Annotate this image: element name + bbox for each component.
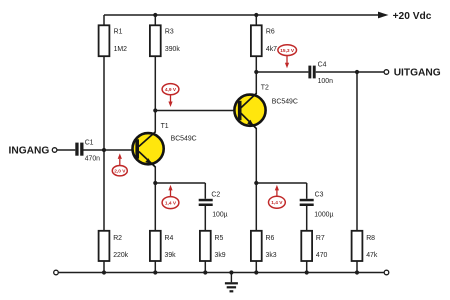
node junction rail R8 (355, 270, 359, 274)
terminal bottom right (384, 270, 389, 275)
svg-text:BC549C: BC549C (171, 136, 197, 143)
svg-text:4,9 V: 4,9 V (165, 87, 177, 93)
capacitor C2 (199, 191, 228, 218)
svg-text:1000µ: 1000µ (314, 212, 333, 219)
resistor R7 (301, 231, 327, 261)
terminal INGANG (9, 146, 57, 157)
transistor T2 (234, 84, 297, 129)
svg-text:UITGANG: UITGANG (394, 68, 441, 79)
svg-text:100µ: 100µ (212, 212, 227, 219)
svg-text:3k9: 3k9 (215, 252, 226, 259)
svg-text:4k7: 4k7 (266, 46, 277, 53)
resistor R6 bottom (251, 231, 277, 261)
supply arrow +20 Vdc (378, 11, 432, 22)
node junction rail ground (229, 270, 233, 274)
resistor R2 (99, 231, 129, 261)
capacitor C1 (75, 139, 100, 162)
wire R1/R2 column (103, 15, 105, 25)
capacitor C3 (300, 191, 334, 218)
svg-text:C4: C4 (318, 62, 327, 69)
svg-text:R6: R6 (266, 28, 275, 35)
wire output line (256, 71, 308, 73)
node junction rail R5 (203, 270, 207, 274)
svg-text:2,0 V: 2,0 V (114, 169, 126, 175)
svg-text:R4: R4 (165, 235, 174, 242)
svg-text:1,4 V: 1,4 V (165, 200, 177, 206)
svg-text:+20 Vdc: +20 Vdc (393, 11, 432, 22)
svg-text:INGANG: INGANG (9, 146, 50, 157)
wire bottom ground rail (58, 272, 384, 274)
voltage label 15,3 V (278, 45, 297, 69)
wire C2/R5 column (204, 183, 206, 199)
svg-text:220k: 220k (113, 252, 128, 259)
svg-text:BC549C: BC549C (272, 98, 298, 105)
svg-text:390k: 390k (165, 46, 180, 53)
node junction rail R7 (305, 270, 309, 274)
node junction rail R2 (102, 270, 106, 274)
wire top supply rail (104, 14, 379, 16)
voltage label 1,4 V right (269, 185, 286, 208)
voltage label 1,4 V left (162, 185, 179, 209)
wire T2 emitter link (256, 182, 306, 184)
svg-text:C2: C2 (211, 191, 220, 198)
svg-text:100n: 100n (318, 78, 333, 85)
transistor T1 (133, 123, 197, 168)
resistor R3 (150, 25, 180, 56)
wire T2 base line (155, 110, 238, 112)
node junction top R3 (153, 13, 157, 17)
wire input line (57, 149, 75, 151)
resistor R5 (200, 231, 226, 261)
wire T2 emitter / R6 bottom column (255, 129, 257, 231)
wire T1 emitter / R4 column (154, 167, 156, 231)
terminal UITGANG (384, 68, 441, 79)
resistor R4 (150, 231, 176, 261)
voltage label 4,9 V (162, 84, 179, 107)
node junction top R6 (254, 13, 258, 17)
svg-text:C1: C1 (85, 139, 94, 146)
node junction rail R6 (254, 270, 258, 274)
node junction input/R1R2 (102, 148, 106, 152)
svg-text:47k: 47k (366, 252, 378, 259)
svg-text:R5: R5 (215, 235, 224, 242)
svg-text:1,4 V: 1,4 V (271, 200, 283, 206)
resistor R1 (99, 25, 128, 56)
terminal bottom left (54, 270, 59, 275)
capacitor C4 (308, 62, 333, 86)
wire C3/R7 column (306, 183, 308, 199)
svg-text:470n: 470n (85, 156, 100, 163)
svg-text:470: 470 (316, 252, 328, 259)
node junction rail R4 (153, 270, 157, 274)
ground (225, 273, 238, 293)
wire T1 emitter link (155, 182, 205, 184)
wire R6 top column / T2 collector (255, 15, 257, 25)
svg-text:R2: R2 (113, 235, 122, 242)
svg-text:R3: R3 (165, 28, 174, 35)
resistor R6 top (251, 25, 277, 56)
voltage label 2,0 V (112, 153, 127, 176)
svg-text:R7: R7 (316, 235, 325, 242)
node junction T1 collector (153, 108, 157, 112)
svg-text:39k: 39k (165, 252, 177, 259)
svg-text:T2: T2 (261, 84, 269, 91)
svg-text:1M2: 1M2 (114, 46, 128, 53)
node junction output R8 (355, 70, 359, 74)
resistor R8 (352, 231, 378, 261)
svg-text:R8: R8 (366, 235, 375, 242)
svg-text:C3: C3 (315, 191, 324, 198)
node junction T1 emitter (153, 181, 157, 185)
node junction T2 collector (254, 70, 258, 74)
svg-text:R6: R6 (266, 235, 275, 242)
node junction T2 emitter (254, 181, 258, 185)
wire R3 column / T1 collector (154, 15, 156, 25)
svg-text:R1: R1 (114, 28, 123, 35)
svg-text:T1: T1 (161, 123, 169, 130)
svg-text:15,3 V: 15,3 V (280, 48, 295, 54)
svg-text:3k3: 3k3 (266, 252, 277, 259)
wire R8 column (356, 72, 358, 231)
